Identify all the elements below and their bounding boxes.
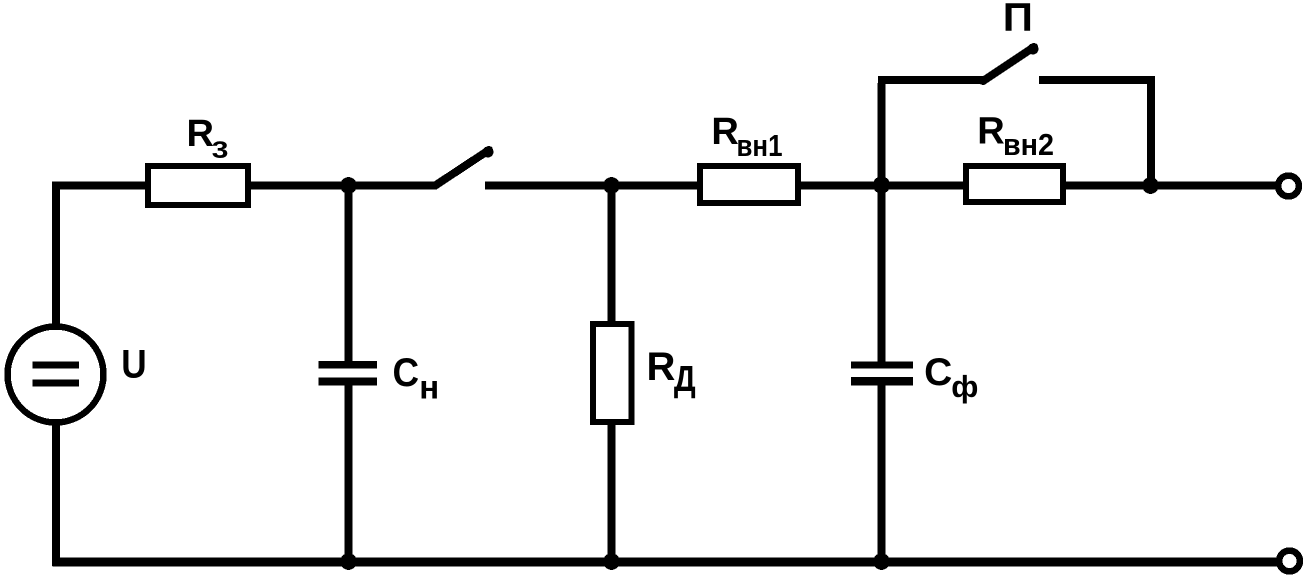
- svg-text:3: 3: [212, 136, 229, 163]
- svg-text:Д: Д: [674, 360, 696, 400]
- svg-text:вн2: вн2: [1003, 127, 1054, 162]
- svg-text:C: C: [924, 351, 952, 394]
- svg-text:R: R: [977, 110, 1004, 152]
- svg-text:П: П: [1003, 0, 1033, 39]
- svg-text:R: R: [711, 111, 738, 153]
- svg-text:R: R: [187, 113, 214, 155]
- svg-text:вн1: вн1: [737, 128, 783, 163]
- svg-text:н: н: [419, 369, 439, 406]
- svg-text:R: R: [647, 345, 676, 389]
- svg-text:C: C: [393, 351, 420, 396]
- svg-text:ф: ф: [951, 369, 978, 404]
- svg-text:U: U: [121, 342, 146, 387]
